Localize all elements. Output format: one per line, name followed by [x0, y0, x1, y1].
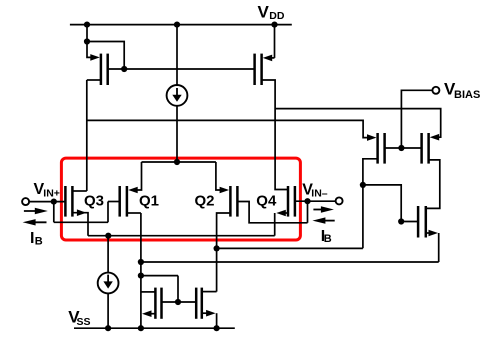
svg-text:Q3: Q3: [84, 193, 104, 210]
svg-text:Q4: Q4: [256, 193, 277, 210]
svg-text:IN+: IN+: [43, 188, 60, 200]
svg-text:B: B: [35, 235, 43, 247]
svg-text:Q1: Q1: [139, 193, 159, 210]
svg-text:DD: DD: [269, 10, 285, 22]
svg-text:BIAS: BIAS: [454, 89, 480, 101]
svg-text:IN–: IN–: [311, 187, 328, 199]
svg-text:B: B: [324, 233, 332, 245]
svg-text:V: V: [258, 2, 270, 21]
svg-text:SS: SS: [77, 316, 91, 328]
svg-text:Q2: Q2: [195, 193, 215, 210]
